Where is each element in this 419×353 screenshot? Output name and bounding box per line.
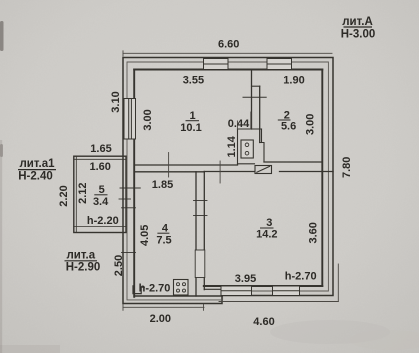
flue nook outline [238, 129, 252, 165]
nook east edge [261, 129, 263, 143]
exterior wall inner line left [133, 70, 135, 297]
svg-text:2.20: 2.20 [58, 185, 70, 206]
svg-text:Н-2.90: Н-2.90 [66, 262, 101, 274]
svg-text:1.65: 1.65 [90, 143, 111, 155]
partition rooms 1/4 lower line [134, 171, 204, 173]
svg-text:3.00: 3.00 [305, 114, 317, 135]
scan artifact left edge mid [0, 144, 3, 157]
junction tick left wall (лит.а boundary) [122, 252, 136, 254]
masonry stove hatched [255, 166, 272, 174]
extension tick 1.65/1.85 [168, 153, 170, 178]
wall ledge line south of room 3 [204, 288, 222, 290]
nook bottom edge [238, 163, 255, 165]
extension tick 1.85/3.95 [219, 161, 221, 183]
svg-text:5.6: 5.6 [281, 121, 296, 133]
dimension line 7.80 [337, 264, 339, 302]
annex a1 outer rect [74, 156, 126, 232]
svg-text:0.44: 0.44 [228, 118, 250, 130]
dimension line 6.60 [123, 51, 332, 56]
annex a1 inner left line [75, 156, 77, 232]
svg-text:2.12: 2.12 [77, 182, 89, 203]
exterior wall middle line [127, 62, 328, 300]
door opening rooms 4/3 [195, 250, 205, 278]
svg-text:1.85: 1.85 [152, 179, 173, 191]
small fixture bottom-left of annex [133, 286, 144, 294]
window top W2 [267, 59, 292, 70]
door tick a1 to room4 [120, 187, 140, 189]
exterior wall outer outline (лит.А + лит.а) [123, 58, 333, 304]
tick on left wall (mid) [119, 198, 131, 200]
svg-text:6.60: 6.60 [218, 38, 239, 50]
scan artifact left edge top [0, 21, 4, 51]
svg-text:4.05: 4.05 [139, 225, 151, 246]
exterior wall inner line top [134, 69, 322, 71]
svg-text:лит.а: лит.а [67, 249, 96, 261]
svg-text:лит.А: лит.А [342, 16, 373, 28]
scan shadow left edge [0, 140, 2, 353]
window left wall [124, 99, 136, 140]
svg-text:4.60: 4.60 [253, 316, 274, 328]
svg-text:3.4: 3.4 [93, 196, 109, 208]
tick on left wall [122, 207, 136, 209]
dimension line 4.60 [219, 301, 338, 303]
annex a1 inner bottom line [74, 226, 126, 228]
svg-text:3.95: 3.95 [235, 273, 256, 285]
svg-text:Н-3.00: Н-3.00 [341, 29, 376, 41]
svg-text:3.10: 3.10 [110, 91, 122, 112]
extension tick 0.44 left [237, 121, 239, 129]
wall jog to room2 west lower [260, 143, 264, 163]
nook top edge [238, 128, 262, 130]
svg-text:1.60: 1.60 [89, 161, 110, 173]
4-burner stove (annex) [174, 280, 189, 296]
tick on partition 4/3 lower [194, 215, 208, 217]
dimension line 2.00 [123, 304, 204, 310]
svg-text:3.60: 3.60 [307, 222, 319, 243]
svg-text:3: 3 [266, 217, 272, 229]
svg-text:1.14: 1.14 [226, 135, 238, 157]
room 3 top edge [204, 171, 254, 173]
partition rooms 2/3 upper line [264, 161, 322, 163]
scan artifact bottom left [0, 345, 60, 353]
annex a1 inner top line [74, 158, 126, 160]
window bottom W2 [273, 286, 300, 296]
partition rooms 1/4 upper line [134, 164, 237, 166]
svg-text:h-2.70: h-2.70 [285, 271, 317, 283]
svg-text:14.2: 14.2 [256, 228, 277, 240]
exterior wall inner line right [321, 70, 323, 287]
svg-text:лит.а1: лит.а1 [20, 158, 56, 170]
svg-text:7.5: 7.5 [156, 235, 171, 247]
svg-text:Н-2.40: Н-2.40 [18, 171, 53, 183]
partition rooms 2/3 lower line (door gap at left) [280, 171, 334, 173]
partition rooms 1/2 west line [251, 70, 253, 130]
svg-text:7.80: 7.80 [341, 157, 353, 178]
window top W1 [204, 59, 229, 70]
partition rooms 4/3 east line [203, 172, 205, 290]
extension tick 0.44 right [250, 112, 252, 129]
svg-text:1.90: 1.90 [283, 75, 304, 87]
exterior wall inner line bottom-left (annex) [134, 295, 222, 297]
exterior wall inner line bottom-right (room 3) [204, 285, 322, 287]
svg-text:3.55: 3.55 [183, 75, 204, 87]
svg-text:2.00: 2.00 [150, 313, 171, 325]
door ticks rooms 1/2 [252, 85, 260, 87]
svg-text:3.00: 3.00 [142, 109, 154, 130]
partition rooms 4/3 west line [195, 172, 197, 296]
svg-text:5: 5 [99, 184, 105, 196]
svg-text:10.1: 10.1 [180, 122, 201, 134]
stove (2-burner) box [241, 140, 253, 158]
svg-text:h-2.70: h-2.70 [139, 283, 171, 295]
tick on partition 4/3 [194, 200, 208, 202]
window bottom W1 [221, 286, 252, 296]
svg-text:2.50: 2.50 [113, 255, 125, 276]
faint watermark mottling bottom right [270, 320, 390, 344]
svg-text:h-2.20: h-2.20 [87, 215, 119, 227]
